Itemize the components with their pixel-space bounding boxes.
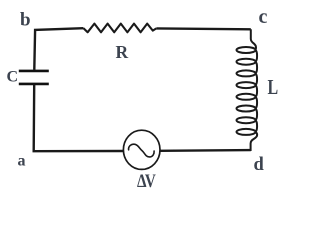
svg-text:c: c — [259, 6, 268, 28]
wire: capacitor bottom to node a corner to source (left vertical + bottom left horizontal) — [34, 85, 124, 151]
wire: resistor to node c corner (top right horizontal) — [156, 27, 251, 30]
svg-text:a: a — [18, 153, 26, 170]
wire: node b corner (left vertical down to capacitor top, top wire to resistor) — [34, 28, 83, 70]
svg-text:R: R — [116, 42, 129, 62]
svg-text:C: C — [7, 69, 19, 86]
AC source circle — [123, 130, 160, 169]
AC source sine wave — [129, 144, 155, 157]
resistor R zigzag — [84, 24, 157, 33]
svg-text:ΔV: ΔV — [137, 170, 156, 191]
svg-text:b: b — [20, 10, 31, 31]
svg-text:d: d — [254, 155, 265, 175]
svg-text:L: L — [268, 76, 279, 100]
inductor L coil (with entry from c and exit to d) — [237, 29, 258, 151]
capacitor C plates — [19, 71, 49, 84]
wire: source to node d corner (bottom right horizontal) — [160, 149, 251, 152]
